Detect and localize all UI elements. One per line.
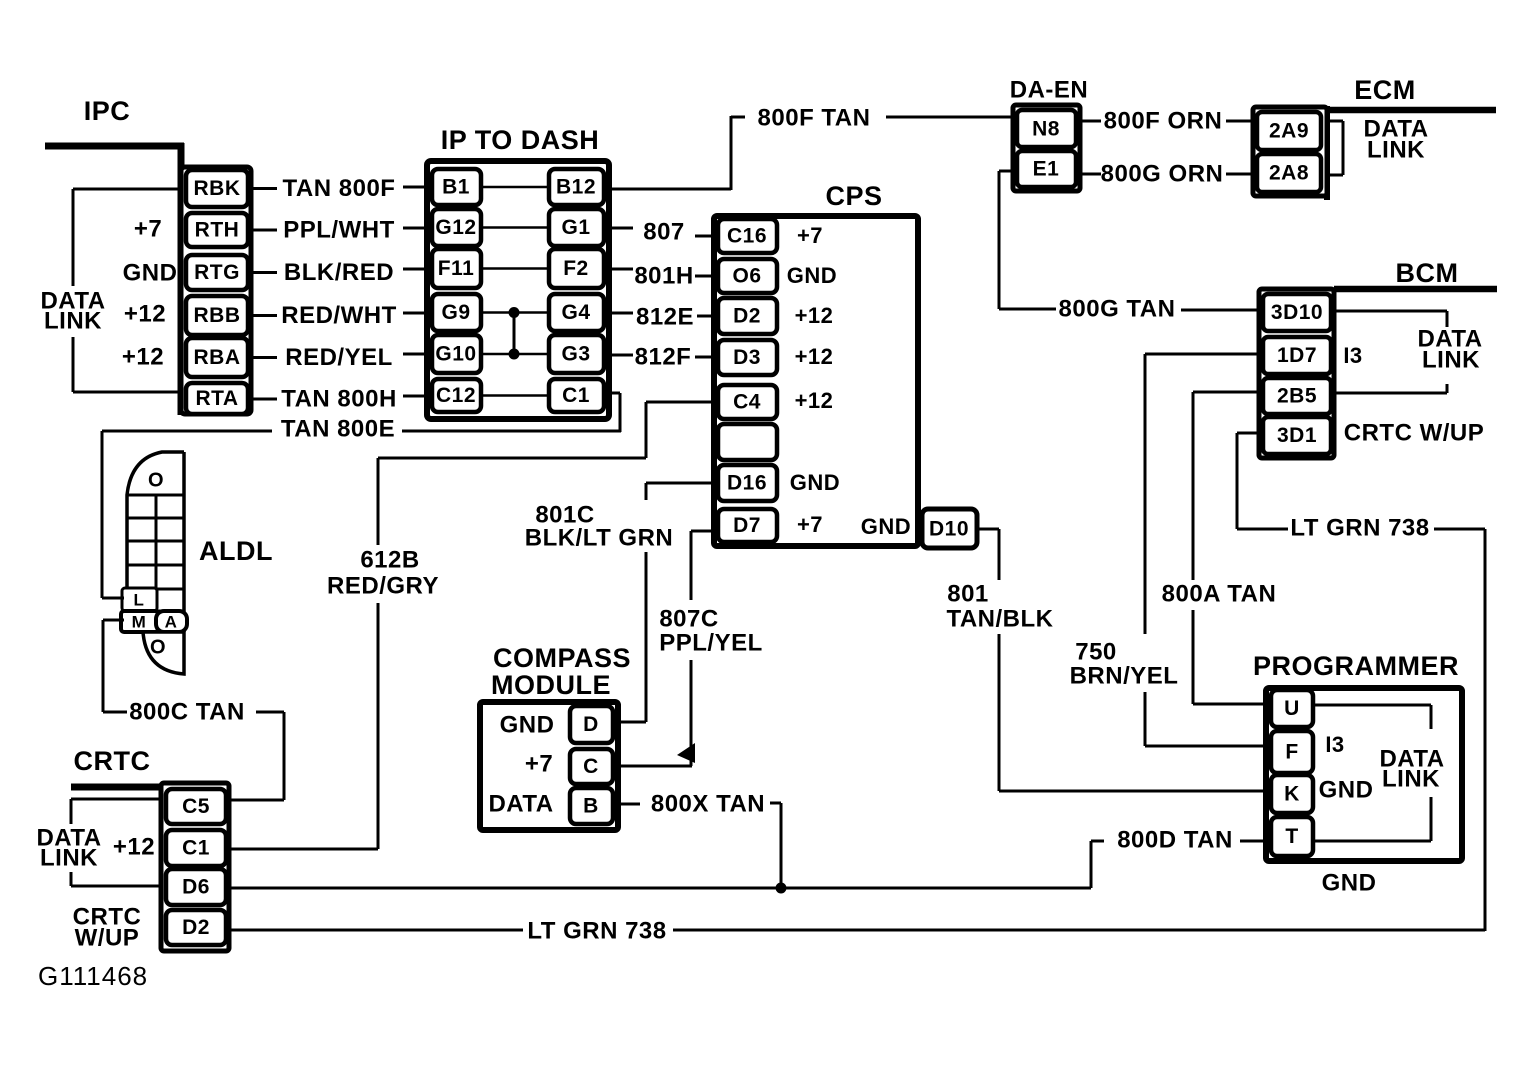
svg-text:RED/GRY: RED/GRY	[327, 572, 439, 599]
svg-text:RTA: RTA	[195, 387, 238, 410]
svg-text:B1: B1	[442, 176, 470, 199]
svg-text:D7: D7	[733, 514, 761, 537]
svg-text:MODULE: MODULE	[491, 670, 611, 700]
svg-text:D2: D2	[182, 916, 210, 939]
svg-text:612B: 612B	[360, 546, 419, 573]
svg-text:C5: C5	[182, 795, 210, 818]
svg-text:GND: GND	[1322, 869, 1377, 896]
svg-text:LINK: LINK	[40, 844, 98, 871]
svg-text:CRTC: CRTC	[74, 746, 151, 776]
svg-text:GND: GND	[790, 470, 840, 495]
svg-text:I3: I3	[1325, 732, 1344, 757]
svg-text:RBA: RBA	[194, 346, 241, 369]
svg-text:G9: G9	[441, 301, 470, 324]
svg-text:GND: GND	[787, 263, 837, 288]
svg-text:TAN 800H: TAN 800H	[281, 385, 397, 412]
svg-text:TAN 800E: TAN 800E	[281, 415, 395, 442]
svg-text:2A8: 2A8	[1269, 162, 1309, 185]
svg-text:+7: +7	[525, 750, 553, 777]
svg-text:A: A	[165, 612, 178, 631]
svg-text:G111468: G111468	[38, 961, 148, 991]
svg-text:G3: G3	[561, 343, 590, 366]
svg-text:LT GRN 738: LT GRN 738	[527, 917, 666, 944]
svg-text:LINK: LINK	[1382, 765, 1440, 792]
svg-text:D: D	[583, 713, 599, 736]
svg-text:DA-EN: DA-EN	[1010, 76, 1089, 103]
svg-text:RED/YEL: RED/YEL	[285, 344, 393, 371]
svg-text:D10: D10	[929, 518, 969, 541]
svg-text:LINK: LINK	[44, 307, 102, 334]
svg-text:C12: C12	[436, 384, 476, 407]
svg-text:LINK: LINK	[1422, 346, 1480, 373]
svg-text:C1: C1	[182, 837, 210, 860]
svg-text:B12: B12	[556, 176, 596, 199]
svg-text:T: T	[1285, 825, 1298, 848]
svg-text:COMPASS: COMPASS	[493, 643, 631, 673]
svg-text:812E: 812E	[636, 303, 694, 330]
svg-text:D2: D2	[733, 305, 761, 328]
svg-text:PPL/YEL: PPL/YEL	[659, 629, 763, 656]
svg-text:BLK/RED: BLK/RED	[284, 259, 394, 286]
svg-text:ECM: ECM	[1354, 75, 1416, 105]
svg-text:2A9: 2A9	[1269, 120, 1309, 143]
svg-text:CRTC W/UP: CRTC W/UP	[1344, 419, 1484, 446]
svg-text:G10: G10	[435, 343, 476, 366]
svg-text:RTG: RTG	[194, 261, 240, 284]
svg-text:B: B	[583, 795, 599, 818]
svg-text:D3: D3	[733, 346, 761, 369]
svg-text:I3: I3	[1343, 343, 1362, 368]
svg-text:+12: +12	[113, 833, 155, 860]
svg-text:DATA: DATA	[488, 790, 553, 817]
svg-text:U: U	[1284, 697, 1300, 720]
svg-text:K: K	[1284, 783, 1300, 806]
svg-text:LT GRN 738: LT GRN 738	[1290, 514, 1429, 541]
svg-text:F2: F2	[563, 257, 589, 280]
svg-text:CPS: CPS	[825, 181, 882, 211]
svg-text:800C TAN: 800C TAN	[129, 698, 245, 725]
svg-text:750: 750	[1075, 638, 1117, 665]
svg-text:GND: GND	[1319, 776, 1374, 803]
svg-text:O6: O6	[732, 265, 761, 288]
svg-text:LINK: LINK	[1367, 136, 1425, 163]
svg-text:812F: 812F	[635, 343, 692, 370]
svg-text:C16: C16	[727, 225, 767, 248]
svg-text:D6: D6	[182, 876, 210, 899]
svg-text:801H: 801H	[634, 262, 693, 289]
svg-text:+7: +7	[797, 223, 823, 248]
svg-text:BLK/LT GRN: BLK/LT GRN	[525, 524, 674, 551]
svg-text:PPL/WHT: PPL/WHT	[283, 216, 395, 243]
svg-text:O: O	[148, 469, 164, 491]
svg-text:800G TAN: 800G TAN	[1059, 295, 1176, 322]
svg-text:O: O	[150, 636, 166, 658]
svg-text:+12: +12	[795, 344, 834, 369]
svg-text:ALDL: ALDL	[199, 536, 273, 566]
svg-text:800G ORN: 800G ORN	[1101, 160, 1224, 187]
svg-text:800F TAN: 800F TAN	[758, 104, 871, 131]
svg-text:+12: +12	[795, 388, 834, 413]
svg-text:800D TAN: 800D TAN	[1117, 826, 1233, 853]
svg-text:3D1: 3D1	[1277, 424, 1317, 447]
svg-text:800X TAN: 800X TAN	[651, 790, 765, 817]
svg-text:E1: E1	[1033, 158, 1060, 181]
svg-text:+7: +7	[797, 512, 823, 537]
svg-text:C4: C4	[733, 391, 761, 414]
svg-text:800F ORN: 800F ORN	[1104, 107, 1223, 134]
svg-text:GND: GND	[861, 514, 911, 539]
svg-text:RBB: RBB	[194, 304, 241, 327]
svg-text:GND: GND	[123, 259, 178, 286]
svg-text:TAN 800F: TAN 800F	[283, 175, 396, 202]
svg-text:W/UP: W/UP	[75, 924, 140, 951]
svg-text:N8: N8	[1032, 118, 1060, 141]
svg-text:2B5: 2B5	[1277, 385, 1317, 408]
svg-text:RTH: RTH	[195, 219, 240, 242]
svg-text:L: L	[134, 590, 145, 609]
svg-text:G12: G12	[435, 216, 476, 239]
svg-text:+7: +7	[134, 215, 162, 242]
svg-text:C1: C1	[562, 384, 590, 407]
svg-text:1D7: 1D7	[1277, 344, 1317, 367]
svg-text:F11: F11	[438, 257, 475, 280]
svg-text:3D10: 3D10	[1271, 301, 1323, 324]
svg-text:RED/WHT: RED/WHT	[281, 302, 396, 329]
svg-text:F: F	[1285, 741, 1298, 764]
svg-text:800A TAN: 800A TAN	[1162, 580, 1277, 607]
svg-text:+12: +12	[124, 300, 166, 327]
svg-text:C: C	[583, 755, 599, 778]
svg-text:IPC: IPC	[84, 96, 131, 126]
svg-text:+12: +12	[795, 303, 834, 328]
svg-text:807: 807	[643, 218, 685, 245]
svg-text:GND: GND	[500, 711, 555, 738]
svg-text:801: 801	[947, 580, 989, 607]
svg-text:G1: G1	[561, 216, 590, 239]
svg-text:G4: G4	[561, 301, 590, 324]
svg-text:BRN/YEL: BRN/YEL	[1070, 662, 1179, 689]
svg-text:+12: +12	[122, 343, 164, 370]
svg-text:BCM: BCM	[1396, 258, 1459, 288]
svg-text:PROGRAMMER: PROGRAMMER	[1253, 651, 1459, 681]
svg-text:D16: D16	[727, 472, 767, 495]
svg-text:M: M	[132, 612, 147, 631]
svg-text:TAN/BLK: TAN/BLK	[946, 605, 1053, 632]
svg-text:RBK: RBK	[194, 177, 241, 200]
svg-text:807C: 807C	[659, 605, 718, 632]
svg-text:IP TO DASH: IP TO DASH	[441, 125, 600, 155]
